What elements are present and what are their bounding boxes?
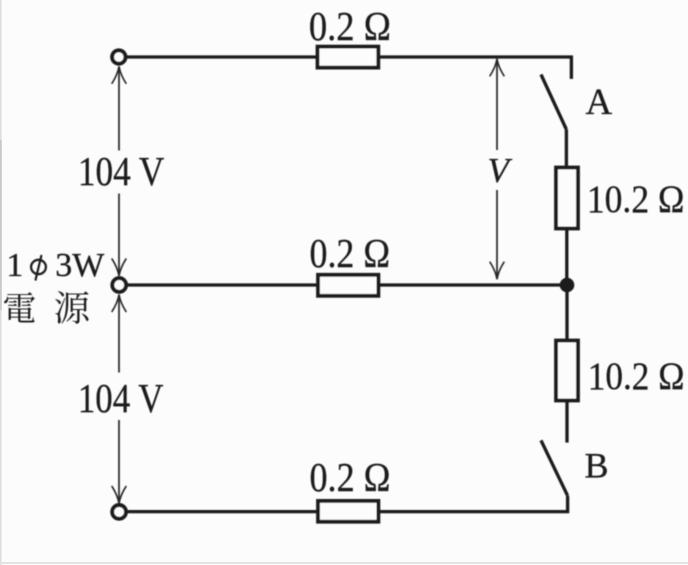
svg-text:104 V: 104 V	[78, 148, 165, 194]
svg-text:0.2 Ω: 0.2 Ω	[310, 454, 391, 500]
dimension arrow 104V top span	[112, 66, 127, 276]
svg-text:1: 1	[6, 247, 23, 284]
svg-text:0.2 Ω: 0.2 Ω	[310, 230, 391, 276]
wire: node N to resistor R5	[565, 285, 568, 341]
switch B blade	[541, 440, 568, 495]
wire: bottom line from terminal T3 to switch B hinge	[127, 496, 568, 512]
svg-text:10.2 Ω: 10.2 Ω	[588, 355, 685, 398]
label 1 phi 3W source designation	[6, 247, 105, 284]
svg-text:104 V: 104 V	[78, 375, 164, 421]
dimension arrow 104V bottom span	[112, 295, 127, 504]
wire: switch A to resistor R4	[565, 130, 568, 168]
label kanji dengen (power source)	[4, 291, 89, 324]
wire: resistor R4 to node N	[565, 229, 568, 286]
resistor R1 0.2 ohm top line	[318, 47, 379, 68]
dimension arrow V line voltage	[490, 59, 505, 279]
resistor R3 0.2 ohm bottom line	[318, 501, 378, 522]
wire: resistor R5 to switch B gap	[565, 401, 568, 443]
svg-text:3W: 3W	[55, 247, 105, 284]
switch A blade	[541, 75, 566, 130]
wire: top line from terminal T1 to switch A stub	[127, 57, 572, 79]
resistor R5 10.2 ohm lower load	[556, 341, 578, 401]
terminal T1	[112, 50, 125, 63]
node N junction dot	[560, 278, 575, 293]
resistor R2 0.2 ohm middle line	[318, 275, 378, 296]
wire: middle line from terminal T2 to node N	[127, 283, 567, 286]
svg-text:0.2 Ω: 0.2 Ω	[309, 3, 391, 49]
terminal T3	[112, 505, 126, 519]
svg-text:B: B	[585, 446, 609, 486]
resistor R4 10.2 ohm upper load	[556, 168, 578, 229]
svg-text:A: A	[586, 82, 613, 123]
svg-text:V: V	[488, 151, 513, 190]
terminal T2	[112, 278, 126, 292]
svg-text:10.2 Ω: 10.2 Ω	[587, 178, 685, 221]
